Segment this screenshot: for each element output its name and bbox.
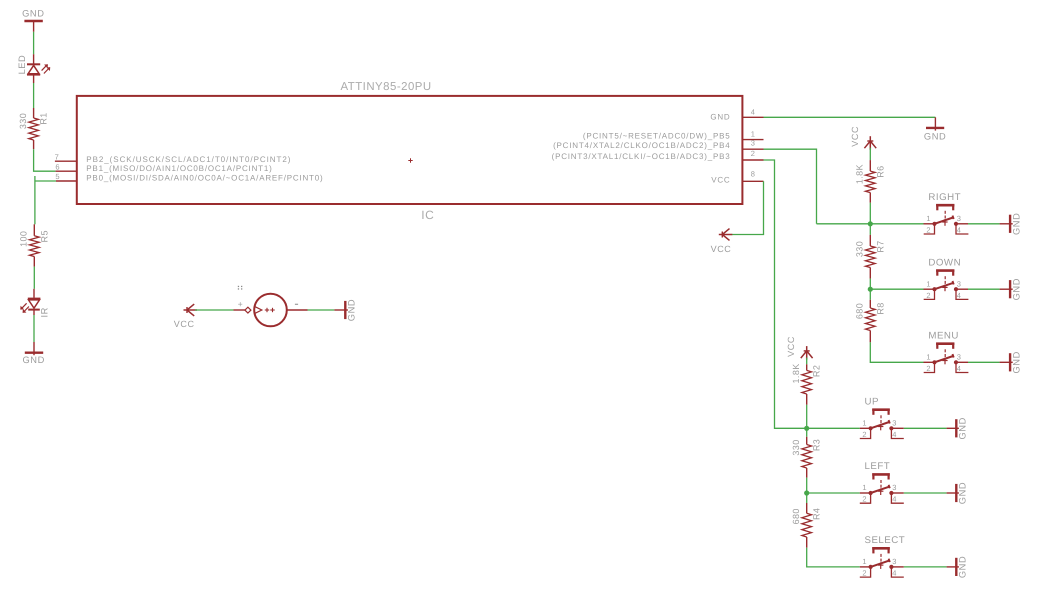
svg-text:GND: GND: [710, 112, 730, 121]
svg-text:UP: UP: [865, 397, 879, 408]
LED IR (infrared diode): [21, 289, 50, 318]
svg-text:(PCINT5/~RESET/ADC0/DW)_PB5: (PCINT5/~RESET/ADC0/DW)_PB5: [583, 131, 731, 140]
power VCC arrow (IC pin 8): [711, 229, 733, 255]
svg-text:(PCINT4/XTAL2/CLKO/OC1B/ADC2)_: (PCINT4/XTAL2/CLKO/OC1B/ADC2)_PB4: [553, 141, 730, 150]
resistor R2 1.8K: [791, 363, 822, 404]
pin 6 number: [55, 163, 59, 172]
svg-text:1: 1: [926, 352, 930, 361]
wire VCC to R6: [869, 148, 871, 160]
svg-text:1: 1: [926, 214, 930, 223]
wire net pin4 to GND: [764, 116, 936, 118]
pin 4 number: [751, 108, 755, 117]
svg-text:4: 4: [957, 291, 961, 300]
svg-text:GND: GND: [22, 9, 44, 19]
wire R6 to node RIGHT: [869, 203, 871, 224]
svg-text:R6: R6: [875, 165, 885, 177]
svg-text:680: 680: [791, 508, 801, 524]
svg-text:R2: R2: [812, 365, 822, 377]
svg-text:330: 330: [855, 241, 865, 257]
pushbutton SELECT: [860, 535, 968, 578]
svg-text:GND: GND: [1012, 351, 1022, 373]
pin 1 stub: [742, 139, 763, 141]
pushbutton DOWN: [924, 257, 1022, 300]
pin 2 label: [552, 152, 731, 161]
svg-text:3: 3: [957, 214, 961, 223]
svg-text:8: 8: [751, 170, 755, 179]
svg-text:LED: LED: [17, 55, 27, 75]
svg-text:GND: GND: [958, 417, 968, 439]
svg-text:3: 3: [892, 483, 896, 492]
svg-text:IC: IC: [421, 208, 434, 222]
svg-text:GND: GND: [1012, 213, 1022, 235]
svg-text:1: 1: [862, 557, 866, 566]
svg-text:100: 100: [19, 231, 29, 247]
svg-text:GND: GND: [22, 355, 44, 365]
resistor R1 330: [18, 108, 49, 149]
pin 2 number: [751, 149, 755, 158]
svg-text:1: 1: [926, 279, 930, 288]
svg-text:1: 1: [751, 129, 755, 138]
wire R2 to node UP: [806, 405, 808, 429]
svg-text:1: 1: [862, 483, 866, 492]
svg-text:330: 330: [18, 113, 28, 129]
resistor R7 330: [855, 235, 886, 279]
pushbutton UP: [860, 397, 968, 440]
svg-text:MENU: MENU: [928, 331, 959, 342]
wire net pin3 to RIGHT row: [764, 149, 817, 224]
pin 5 number: [55, 172, 59, 181]
svg-text:4: 4: [892, 430, 896, 439]
node junction (DOWN row): [868, 287, 873, 292]
wire VCC to R2: [806, 358, 808, 365]
wire node to R3: [806, 428, 808, 437]
pin 2 stub: [742, 159, 763, 161]
svg-text:4: 4: [892, 495, 896, 504]
svg-text:ATTINY85-20PU: ATTINY85-20PU: [341, 81, 432, 93]
wire VCC to battery +: [195, 309, 234, 311]
svg-text:GND: GND: [924, 131, 946, 141]
wire LED to R1: [33, 83, 35, 108]
IC body ATTINY85-20PU: [77, 96, 743, 204]
svg-text:1.8K: 1.8K: [855, 164, 865, 184]
svg-text:330: 330: [791, 439, 801, 455]
svg-text:LEFT: LEFT: [865, 461, 891, 472]
node junction (RIGHT row): [868, 221, 873, 226]
pin label PB1: [86, 164, 272, 173]
wire LEFT row: [807, 492, 860, 494]
svg-text:R7: R7: [875, 240, 885, 252]
wire R5 to IR LED: [33, 267, 35, 289]
battery G1 (supply): [234, 286, 308, 327]
svg-text:GND: GND: [347, 299, 357, 321]
wire GND to LED cathode: [33, 32, 35, 54]
svg-text:2: 2: [862, 430, 866, 439]
power VCC arrow (R6 ladder): [850, 126, 876, 150]
resistor R6 1.8K: [855, 160, 886, 203]
svg-text:GND: GND: [958, 556, 968, 578]
pin 6 stub (PB1): [56, 170, 77, 172]
svg-text:5: 5: [55, 172, 59, 181]
node junction (LEFT row): [804, 490, 809, 495]
IC designator label IC: [421, 208, 434, 222]
svg-text:1: 1: [862, 418, 866, 427]
svg-text:2: 2: [926, 225, 930, 234]
svg-text:2: 2: [926, 364, 930, 373]
pin 3 stub: [742, 148, 763, 150]
svg-text:R5: R5: [39, 230, 49, 242]
svg-text:RIGHT: RIGHT: [928, 192, 961, 203]
svg-text:VCC: VCC: [711, 175, 730, 184]
wire IR LED to GND: [33, 315, 35, 342]
wire DOWN row: [870, 288, 923, 290]
svg-text:7: 7: [55, 152, 59, 161]
svg-text:2: 2: [862, 495, 866, 504]
power ground symbol GND (below IR LED): [22, 342, 44, 365]
power ground symbol GND (battery): [334, 299, 356, 321]
wire node to R8: [869, 289, 871, 300]
LED LED1 (indicator diode): [17, 54, 50, 83]
pin label PB0: [86, 173, 323, 182]
svg-text:PB0_(MOSI/DI/SDA/AIN0/OC0A/~OC: PB0_(MOSI/DI/SDA/AIN0/OC0A/~OC1A/AREF/PC…: [86, 173, 323, 182]
svg-text:4: 4: [957, 225, 961, 234]
wire IC pin 5 down to R5: [35, 176, 56, 224]
pushbutton RIGHT: [924, 192, 1022, 235]
pin 1 number: [751, 129, 755, 138]
wire net pin8 to VCC: [732, 181, 764, 234]
wire node to R7: [869, 224, 871, 235]
power VCC arrow (battery +): [174, 304, 197, 329]
svg-text:+: +: [238, 299, 243, 309]
svg-text:6: 6: [55, 163, 59, 172]
svg-text:R3: R3: [812, 439, 822, 451]
svg-text:DOWN: DOWN: [928, 257, 961, 268]
pin 8 stub: [742, 180, 763, 182]
svg-text:3: 3: [751, 139, 755, 148]
svg-text:2: 2: [862, 569, 866, 578]
power ground symbol GND (top right): [924, 117, 946, 141]
svg-text:R1: R1: [39, 112, 49, 124]
IC name label ATTINY85-20PU: [341, 81, 432, 93]
svg-text:VCC: VCC: [711, 244, 732, 254]
resistor R8 680: [855, 300, 886, 343]
svg-text:4: 4: [957, 364, 961, 373]
resistor R3 330: [791, 437, 822, 478]
svg-text:(PCINT3/XTAL1/CLKI/~OC1B/ADC3): (PCINT3/XTAL1/CLKI/~OC1B/ADC3)_PB3: [552, 152, 731, 161]
svg-text:VCC: VCC: [174, 319, 195, 329]
svg-text:680: 680: [855, 303, 865, 319]
wire R7 to node DOWN: [869, 279, 871, 290]
power ground symbol GND (top left): [22, 9, 44, 32]
svg-text:VCC: VCC: [850, 126, 860, 147]
wire battery - to GND: [308, 309, 335, 311]
svg-text:R8: R8: [875, 302, 885, 314]
wire RIGHT row: [817, 223, 924, 225]
power VCC arrow (R2 ladder): [786, 336, 812, 360]
svg-text:GND: GND: [1012, 278, 1022, 300]
svg-text:3: 3: [957, 279, 961, 288]
svg-text:4: 4: [892, 569, 896, 578]
svg-text:3: 3: [892, 557, 896, 566]
pin label PB2: [86, 155, 291, 164]
pin 5 stub (PB0): [56, 180, 77, 182]
svg-text:IR: IR: [40, 307, 50, 317]
pin 8 number: [751, 170, 755, 179]
wire net pin2 down to UP row: [764, 160, 807, 428]
wire R1 to IC pin 6: [34, 149, 56, 171]
pushbutton MENU: [924, 331, 1022, 374]
svg-text:SELECT: SELECT: [865, 535, 906, 546]
node junction (UP row): [804, 426, 809, 431]
svg-text:1.8K: 1.8K: [791, 363, 801, 383]
resistor R4 680: [791, 503, 822, 548]
pin 3 label: [553, 141, 730, 150]
svg-text:2: 2: [751, 149, 755, 158]
svg-text:3: 3: [892, 418, 896, 427]
svg-text:2: 2: [926, 291, 930, 300]
wire R3 to node LEFT: [806, 478, 808, 493]
wire node to R4: [806, 493, 808, 503]
svg-text:PB2_(SCK/USCK/SCL/ADC1/T0/INT0: PB2_(SCK/USCK/SCL/ADC1/T0/INT0/PCINT2): [86, 155, 291, 164]
svg-text:3: 3: [957, 352, 961, 361]
pin 4 stub: [742, 116, 763, 118]
svg-text:4: 4: [751, 108, 755, 117]
pin 8 label: [711, 175, 730, 184]
svg-text:GND: GND: [958, 482, 968, 504]
pin 4 label: [710, 112, 730, 121]
wire R8 to MENU row: [870, 342, 923, 362]
svg-text:R4: R4: [812, 508, 822, 520]
wire R4 to SELECT row: [807, 548, 860, 567]
resistor R5 100: [19, 224, 50, 266]
pushbutton LEFT: [860, 461, 968, 504]
svg-text:PB1_(MISO/DO/AIN1/OC0B/OC1A/PC: PB1_(MISO/DO/AIN1/OC0B/OC1A/PCINT1): [86, 164, 272, 173]
pin 7 number: [55, 152, 59, 161]
wire UP row: [807, 427, 860, 429]
pin 3 number: [751, 139, 755, 148]
svg-text:VCC: VCC: [786, 336, 796, 357]
pin 1 label: [583, 131, 731, 140]
IC origin cross: [408, 158, 412, 162]
pin 7 stub (PB2): [55, 160, 77, 162]
